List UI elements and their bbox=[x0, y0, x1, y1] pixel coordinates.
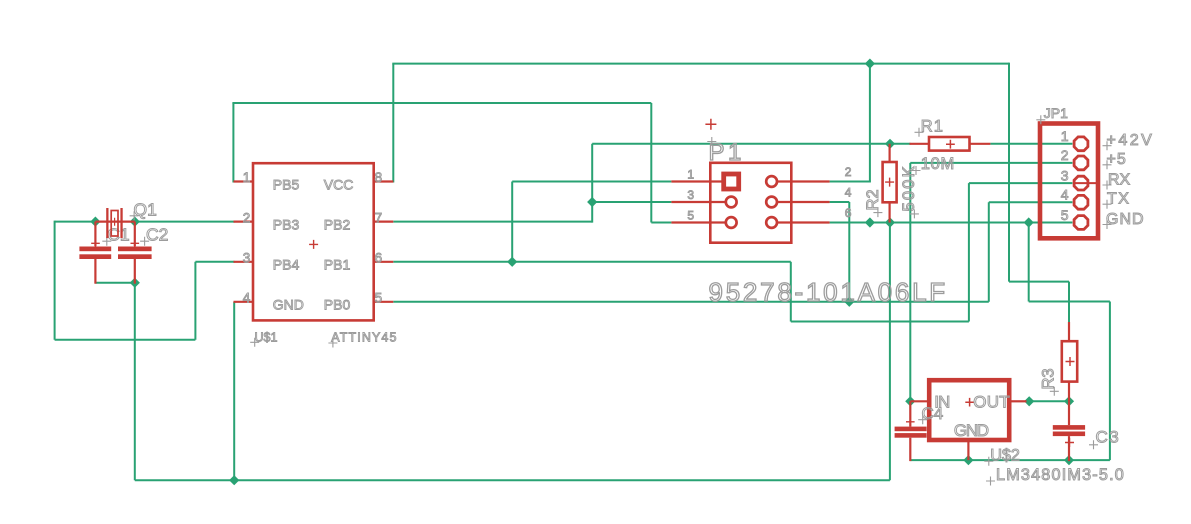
wire XTAL A node left bbox=[55, 221, 96, 223]
svg-text:1: 1 bbox=[687, 168, 694, 182]
wire VCC net: down to R3 bbox=[1068, 282, 1070, 322]
svg-text:TX: TX bbox=[1107, 191, 1130, 208]
net label TX bbox=[1103, 200, 1112, 209]
svg-text:R2: R2 bbox=[864, 189, 882, 210]
wire GND row from P1 pin6 to JP1 pin5 bbox=[830, 222, 1073, 224]
resistor R3 top lead bbox=[1068, 322, 1070, 341]
wire XTAL A loop: into U$1 pin3 PB4 bbox=[195, 261, 234, 263]
wire PB5 net: down to P1 pin5 row bbox=[650, 103, 652, 223]
wire +5 net: down to U$2 IN bbox=[909, 163, 911, 401]
JP1 label bbox=[1036, 115, 1045, 124]
svg-text:PB4: PB4 bbox=[273, 257, 300, 273]
P1 pad 2 bbox=[766, 176, 777, 187]
wire XTAL B node to U$1 pin2 PB3 bbox=[135, 221, 235, 223]
capacitor C4 bottom lead bbox=[909, 438, 911, 461]
P1 pad 5 bbox=[726, 217, 737, 228]
resistor R3 label bbox=[1050, 387, 1059, 396]
wire GND bottom-left long horizontal bbox=[135, 479, 890, 481]
capacitor C1 top lead bbox=[94, 222, 96, 247]
U$1 value label ATTINY45 bbox=[328, 339, 337, 348]
wire VCC net: top horizontal bbox=[392, 63, 1009, 65]
JP1 pad 3 bbox=[1074, 176, 1088, 190]
svg-text:ATTINY45: ATTINY45 bbox=[331, 331, 397, 345]
svg-text:U$2: U$2 bbox=[990, 446, 1020, 464]
svg-text:5: 5 bbox=[687, 209, 694, 223]
wire PB2 net: horizontal to R1/R2 bbox=[592, 143, 890, 145]
P1 pin 3 stub bbox=[671, 201, 725, 203]
wire P1 pin4 branch horizontal bbox=[830, 201, 850, 203]
connector JP1 body bbox=[1040, 124, 1098, 239]
capacitor C3 bottom lead bbox=[1068, 436, 1070, 461]
wire PB1 net: from U$1 pin6 bbox=[393, 261, 791, 263]
node PB1 junction to P1 pin1 bbox=[507, 257, 517, 267]
JP1 pad 1 bbox=[1074, 137, 1088, 151]
P1 pad 6 bbox=[766, 217, 777, 228]
resistor R2 value 500K bbox=[910, 209, 919, 218]
svg-text:6: 6 bbox=[375, 251, 383, 266]
crystal Q1 left plate bbox=[106, 208, 108, 238]
capacitor C1 origin cross bbox=[91, 239, 100, 248]
resistor R1 right lead bbox=[970, 143, 991, 145]
U$2 GND stub bbox=[967, 440, 969, 460]
U$1 pin 7 stub bbox=[374, 221, 394, 223]
wire GND bottom-right horizontal bbox=[910, 459, 1110, 461]
U$1 pin 3 stub bbox=[234, 261, 254, 263]
wire PB5 net: into P1 pin5 bbox=[651, 222, 671, 224]
svg-text:+42V: +42V bbox=[1107, 132, 1155, 149]
node junction at U$2 IN / C4 bbox=[905, 396, 915, 406]
JP1 pad 5 bbox=[1074, 216, 1088, 230]
capacitor C2 plates bbox=[118, 247, 152, 252]
wire GND from caps down bbox=[134, 283, 136, 481]
resistor R1 left lead bbox=[910, 143, 930, 145]
crystal Q1 origin cross bbox=[111, 218, 119, 226]
svg-text:3: 3 bbox=[243, 251, 251, 266]
P1 pad 1 square bbox=[724, 174, 739, 189]
svg-text:1: 1 bbox=[243, 170, 251, 185]
resistor R2 bottom lead bbox=[888, 202, 890, 222]
U$2 value label LM3480IM3-5.0 bbox=[986, 477, 995, 486]
resistor R1 label bbox=[915, 128, 924, 137]
svg-text:P1: P1 bbox=[709, 139, 745, 166]
voltage regulator U$2 body bbox=[929, 380, 1009, 440]
net label RX bbox=[1103, 181, 1112, 190]
crystal Q1 right plate bbox=[120, 208, 122, 238]
node C1-C2 bottom junction bbox=[130, 278, 140, 288]
svg-text:GND: GND bbox=[1106, 211, 1145, 228]
capacitor C2 label bbox=[140, 237, 149, 246]
capacitor C2 bottom lead bbox=[134, 259, 136, 284]
P1 origin cross bbox=[705, 119, 716, 130]
svg-text:7: 7 bbox=[375, 210, 383, 225]
svg-text:3: 3 bbox=[1061, 168, 1069, 184]
P1 pin 5 stub bbox=[671, 221, 725, 223]
wire P1 pin4 branch down bbox=[848, 202, 850, 302]
svg-text:C2: C2 bbox=[146, 224, 168, 244]
wire PB0 net: from U$1 pin5 bbox=[393, 301, 989, 303]
svg-text:4: 4 bbox=[1061, 187, 1069, 203]
wire +42V: R1 right to JP1 pin1 bbox=[990, 143, 1072, 145]
net label +42V bbox=[1103, 141, 1112, 150]
svg-text:U$1: U$1 bbox=[255, 331, 278, 345]
node PB2/R1/R2 junction bbox=[885, 139, 895, 149]
svg-text:Q1: Q1 bbox=[134, 199, 157, 219]
connector P1 body bbox=[710, 163, 791, 243]
U$1 reference label bbox=[250, 338, 259, 347]
node junction at U$2 OUT bbox=[1024, 396, 1034, 406]
wire PB1 branch to P1 pin1 bbox=[512, 181, 671, 183]
node PB0 junction to P1 pin4 bbox=[844, 297, 854, 307]
capacitor C2 origin cross bbox=[131, 239, 140, 248]
wire VCC branch horizontal to P1 pin2 bbox=[830, 181, 871, 183]
svg-text:4: 4 bbox=[845, 186, 852, 200]
wire XTAL A loop: left vertical bbox=[54, 221, 56, 340]
resistor R2 label bbox=[873, 208, 882, 217]
svg-text:OUT: OUT bbox=[973, 392, 1009, 411]
svg-text:5: 5 bbox=[1061, 207, 1069, 223]
U$1 pin 8 stub bbox=[374, 180, 394, 182]
P1 pin 1 stub bbox=[671, 180, 722, 182]
svg-text:500K: 500K bbox=[900, 164, 918, 211]
P1 pad 3 bbox=[726, 197, 737, 208]
resistor R3 body bbox=[1062, 341, 1077, 381]
svg-text:2: 2 bbox=[1061, 147, 1069, 163]
node GND junction at U$2 GND pin bbox=[963, 455, 973, 465]
node PB2 junction to P1 pin3 bbox=[587, 197, 597, 207]
node VCC junction at top bbox=[865, 59, 875, 69]
resistor R1 value 10M bbox=[912, 166, 921, 175]
svg-text:6: 6 bbox=[845, 206, 852, 220]
node GND junction at C3 bottom bbox=[1064, 455, 1074, 465]
JP1 pad 2 bbox=[1074, 156, 1088, 170]
svg-text:RX: RX bbox=[1108, 171, 1131, 188]
svg-text:JP1: JP1 bbox=[1044, 105, 1068, 121]
capacitor C3 label bbox=[1089, 440, 1098, 449]
wire VCC branch down to P1 pin2 bbox=[869, 63, 871, 182]
wire VCC net: horizontal to R3 column bbox=[1009, 281, 1069, 283]
wire +5 net: JP1 pin2 horizontal bbox=[910, 162, 1072, 164]
crystal Q1 lead bbox=[95, 221, 134, 223]
wire GND route: down right side bbox=[1109, 302, 1111, 461]
resistor R1 origin cross bbox=[946, 140, 955, 149]
wire PB2 net: from U$1 pin7 bbox=[393, 221, 592, 223]
svg-text:PB3: PB3 bbox=[273, 217, 300, 233]
svg-text:PB1: PB1 bbox=[324, 257, 351, 273]
JP1 pad 4 bbox=[1074, 195, 1088, 209]
crystal Q1 body bbox=[111, 211, 118, 237]
resistor R3 bottom lead bbox=[1068, 382, 1070, 402]
P1 pad 4 bbox=[766, 197, 777, 208]
wire XTAL A loop: bottom horizontal bbox=[55, 339, 196, 341]
node GND row junction A bbox=[865, 217, 875, 227]
wire RX to JP1 pin3 bbox=[969, 182, 1073, 184]
wire PB1 net: down bbox=[790, 262, 792, 322]
node GND junction at U$1 pin4 column bbox=[229, 475, 239, 485]
capacitor C3 origin cross bbox=[1065, 438, 1074, 447]
capacitor C3 top lead bbox=[1068, 401, 1070, 425]
node GND row junction to JP1 pin5 bbox=[1024, 217, 1034, 227]
svg-text:LM3480IM3-5.0: LM3480IM3-5.0 bbox=[996, 466, 1125, 484]
U$2 OUT stub bbox=[1012, 400, 1027, 402]
capacitor C3 plates bbox=[1053, 425, 1085, 430]
capacitor C1 plates bbox=[79, 247, 111, 252]
resistor R2 top lead bbox=[888, 144, 890, 162]
svg-text:R1: R1 bbox=[921, 117, 944, 135]
capacitor C4 origin cross bbox=[906, 418, 915, 427]
svg-text:R3: R3 bbox=[1040, 368, 1058, 389]
P1 pin 4 stub bbox=[777, 201, 830, 203]
U$1 pin 5 stub bbox=[374, 301, 394, 303]
P1 label bbox=[707, 137, 716, 146]
svg-text:PB2: PB2 bbox=[324, 217, 351, 233]
svg-text:2: 2 bbox=[243, 210, 251, 225]
wire PB1 branch up to P1 pin1 row bbox=[511, 182, 513, 262]
capacitor C1 label bbox=[102, 237, 111, 246]
capacitor C2 top lead bbox=[134, 222, 136, 247]
svg-text:2: 2 bbox=[845, 165, 852, 179]
wire PB2 net: up bbox=[591, 144, 593, 223]
capacitor C4 plates bbox=[895, 427, 927, 432]
node XTAL A junction bbox=[90, 217, 100, 227]
U$1 pin 4 stub bbox=[234, 301, 254, 303]
U$1 origin cross bbox=[309, 240, 318, 249]
svg-text:95278-101A06LF: 95278-101A06LF bbox=[709, 277, 948, 307]
wire GND route: horizontal right bbox=[1029, 301, 1110, 303]
wire PB2 to R1 left lead bbox=[890, 143, 911, 145]
wire PB2 branch to P1 pin3 bbox=[592, 201, 671, 203]
wire TX to JP1 pin4 bbox=[989, 201, 1073, 203]
svg-text:5: 5 bbox=[375, 291, 383, 306]
svg-text:+5: +5 bbox=[1107, 151, 1127, 168]
wire PB1 net: up to RX row bbox=[968, 183, 970, 321]
capacitor C4 label bbox=[918, 415, 927, 424]
resistor R2 body bbox=[883, 162, 897, 202]
U$1 pin 6 stub bbox=[374, 261, 394, 263]
wire OUT row horizontal bbox=[1026, 400, 1070, 402]
wire XTAL A loop: up to PB4 row bbox=[194, 262, 196, 340]
U$2 IN stub bbox=[910, 400, 929, 402]
wire GND bottom up to GND row bbox=[889, 223, 891, 481]
wire VCC net: U$1 pin8 up bbox=[392, 64, 394, 183]
svg-text:1: 1 bbox=[1061, 128, 1069, 144]
wire VCC net: right vertical bbox=[1008, 63, 1010, 282]
P1 pin 6 stub bbox=[777, 221, 830, 223]
U$1 pin 1 stub bbox=[234, 180, 254, 182]
svg-text:3: 3 bbox=[687, 188, 694, 202]
wire C1-C2 common bottom node bbox=[95, 282, 134, 284]
net label GND bbox=[1103, 220, 1112, 229]
U$2 reference label bbox=[984, 457, 993, 466]
svg-text:C4: C4 bbox=[922, 404, 944, 423]
capacitor C1 bottom lead bbox=[94, 259, 96, 284]
svg-text:C3: C3 bbox=[1096, 427, 1121, 446]
node GND row junction at R2 bottom bbox=[885, 217, 895, 227]
wire PB1 net: horizontal bbox=[791, 321, 969, 323]
svg-text:4: 4 bbox=[243, 291, 251, 306]
svg-text:PB5: PB5 bbox=[273, 176, 300, 192]
wire PB0 net: up to TX row bbox=[988, 202, 990, 301]
resistor R2 origin cross bbox=[885, 178, 894, 187]
crystal Q1 label bbox=[130, 211, 139, 220]
node junction at R3 bottom / C3 top bbox=[1064, 396, 1074, 406]
svg-text:8: 8 bbox=[375, 170, 383, 185]
svg-text:GND: GND bbox=[954, 421, 989, 440]
wire PB5 net: horizontal bbox=[232, 102, 651, 104]
P1 pin 2 stub bbox=[777, 180, 830, 182]
svg-text:10M: 10M bbox=[921, 155, 955, 173]
wire GND route: down from GND row bbox=[1028, 223, 1030, 302]
resistor R1 body bbox=[929, 137, 970, 151]
wire PB5 net: U$1 pin1 up bbox=[232, 103, 234, 183]
svg-text:PB0: PB0 bbox=[324, 297, 351, 313]
capacitor C4 top lead bbox=[909, 401, 911, 426]
wire GND from U$1 pin4 down bbox=[233, 302, 235, 480]
svg-text:VCC: VCC bbox=[324, 176, 354, 192]
op-amp U1 - IC U$1 ATTINY45 body bbox=[253, 163, 374, 320]
net label +5 bbox=[1103, 160, 1112, 169]
U$1 pin 2 stub bbox=[234, 221, 254, 223]
resistor R3 origin cross bbox=[1066, 357, 1075, 366]
U$2 origin cross bbox=[965, 398, 974, 407]
svg-text:GND: GND bbox=[273, 297, 304, 313]
JP1 pin 3 inner stub bbox=[1075, 182, 1096, 184]
node XTAL B junction bbox=[130, 217, 140, 227]
